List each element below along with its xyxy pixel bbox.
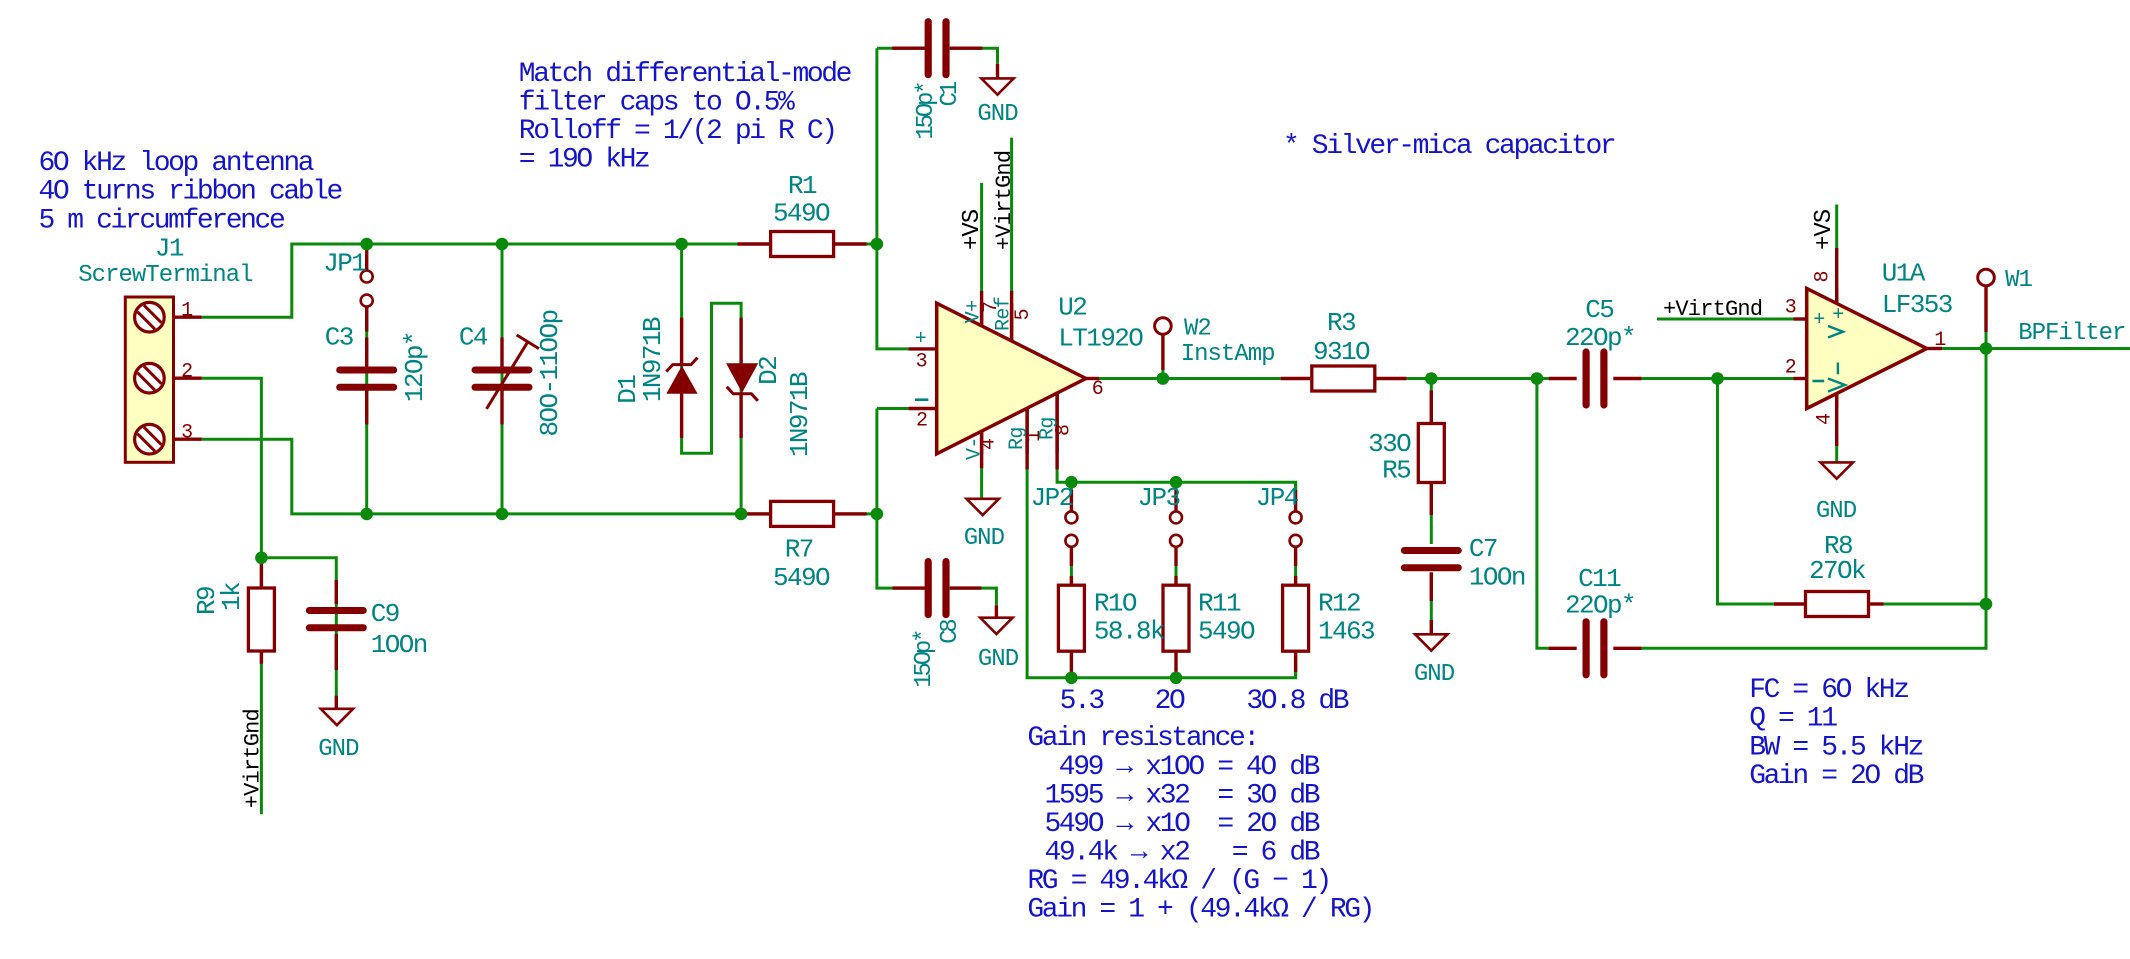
svg-text:R1O: R1O: [1094, 588, 1137, 618]
svg-text:C11: C11: [1578, 564, 1621, 594]
svg-text:1: 1: [181, 300, 193, 323]
svg-text:D2: D2: [754, 357, 784, 385]
svg-text:U1A: U1A: [1882, 259, 1926, 289]
svg-text:3: 3: [1785, 297, 1796, 320]
svg-text:3: 3: [181, 422, 192, 445]
svg-text:C9: C9: [371, 599, 399, 629]
svg-text:1OOn: 1OOn: [371, 630, 427, 660]
svg-text:5.3: 5.3: [1060, 686, 1105, 717]
svg-text:InstAmp: InstAmp: [1181, 341, 1275, 368]
svg-text:58.8k: 58.8k: [1094, 616, 1165, 646]
svg-text:LF353: LF353: [1882, 290, 1952, 320]
svg-text:JP4: JP4: [1256, 483, 1299, 513]
svg-text:27Ok: 27Ok: [1809, 556, 1866, 586]
svg-text:BW = 5.5 kHz: BW = 5.5 kHz: [1749, 732, 1922, 763]
svg-text:R11: R11: [1198, 588, 1241, 618]
svg-text:4O turns ribbon cable: 4O turns ribbon cable: [39, 177, 342, 208]
svg-text:R3: R3: [1327, 308, 1355, 338]
svg-text:6O kHz loop antenna: 6O kHz loop antenna: [39, 148, 314, 179]
svg-text:W2: W2: [1184, 315, 1211, 342]
svg-text:R7: R7: [785, 534, 813, 564]
svg-text:6: 6: [1092, 378, 1103, 401]
svg-text:C3: C3: [325, 323, 353, 353]
svg-text:Q = 11: Q = 11: [1749, 704, 1837, 735]
svg-text:2: 2: [181, 361, 192, 384]
svg-text:2O: 2O: [1155, 686, 1185, 717]
svg-text:549O: 549O: [773, 563, 830, 593]
svg-text:49.4k → x2 = 6 dB: 49.4k → x2 = 6 dB: [1045, 838, 1320, 869]
svg-text:15Op*: 15Op*: [913, 83, 940, 140]
svg-text:W1: W1: [2005, 267, 2032, 294]
svg-text:15Op*: 15Op*: [911, 631, 938, 688]
svg-text:* Silver-mica capacitor: * Silver-mica capacitor: [1283, 131, 1615, 162]
svg-text:J1: J1: [155, 233, 184, 263]
svg-text:GND: GND: [978, 646, 1019, 673]
svg-text:R1: R1: [788, 171, 817, 201]
svg-text:C4: C4: [459, 323, 488, 353]
svg-text:3O.8 dB: 3O.8 dB: [1246, 686, 1348, 717]
svg-text:+VS: +VS: [1811, 209, 1838, 250]
svg-text:GND: GND: [964, 525, 1005, 552]
svg-text:V-: V-: [964, 437, 987, 460]
svg-text:549O: 549O: [1198, 616, 1255, 646]
svg-text:GND: GND: [1816, 498, 1857, 525]
svg-text:8: 8: [1812, 271, 1835, 282]
svg-text:Rg: Rg: [1006, 427, 1029, 450]
svg-text:R5: R5: [1382, 456, 1410, 486]
svg-text:3: 3: [916, 351, 927, 374]
svg-text:Ref: Ref: [993, 297, 1016, 331]
svg-text:FC = 6O kHz: FC = 6O kHz: [1749, 675, 1908, 706]
svg-text:+VS: +VS: [959, 209, 986, 250]
svg-text:+VirtGnd: +VirtGnd: [992, 151, 1017, 250]
svg-text:BPFilter: BPFilter: [2018, 320, 2125, 347]
svg-text:Gain = 2O dB: Gain = 2O dB: [1749, 761, 1923, 792]
svg-text:1595 → x32 = 3O dB: 1595 → x32 = 3O dB: [1045, 781, 1320, 812]
svg-text:1N971B: 1N971B: [638, 317, 668, 402]
svg-text:+: +: [1832, 304, 1843, 327]
svg-text:Gain = 1 + (49.4kΩ / RG): Gain = 1 + (49.4kΩ / RG): [1027, 895, 1373, 926]
svg-text:Rg: Rg: [1037, 417, 1060, 440]
svg-text:33O: 33O: [1368, 429, 1411, 459]
svg-text:C1: C1: [937, 81, 964, 106]
svg-text:549O: 549O: [773, 198, 830, 228]
svg-text:GND: GND: [318, 736, 359, 763]
svg-text:22Op*: 22Op*: [1565, 323, 1635, 353]
svg-text:549O → x1O = 2O dB: 549O → x1O = 2O dB: [1045, 809, 1320, 840]
svg-text:+VirtGnd: +VirtGnd: [1663, 297, 1762, 322]
svg-text:RG = 49.4kΩ / (G − 1): RG = 49.4kΩ / (G − 1): [1027, 866, 1329, 897]
svg-text:8OO-11OOp: 8OO-11OOp: [535, 310, 565, 436]
svg-text:2: 2: [1785, 357, 1796, 380]
svg-text:Gain resistance:: Gain resistance:: [1027, 723, 1257, 754]
svg-text:1: 1: [1934, 329, 1946, 352]
svg-text:12Op*: 12Op*: [400, 332, 430, 402]
svg-text:1OOn: 1OOn: [1469, 563, 1525, 593]
svg-text:Rolloff = 1/(2 pi R C): Rolloff = 1/(2 pi R C): [519, 116, 836, 147]
svg-text:5 m circumference: 5 m circumference: [39, 205, 284, 236]
svg-text:filter caps to O.5%: filter caps to O.5%: [519, 88, 795, 119]
svg-text:+: +: [915, 328, 926, 351]
svg-text:V+: V+: [963, 300, 986, 323]
svg-text:4: 4: [1814, 414, 1837, 425]
svg-text:931O: 931O: [1313, 337, 1370, 367]
svg-text:C7: C7: [1469, 534, 1497, 564]
svg-text:+VirtGnd: +VirtGnd: [241, 709, 266, 808]
svg-text:C5: C5: [1585, 295, 1613, 325]
svg-text:499 → x1OO = 4O dB: 499 → x1OO = 4O dB: [1059, 752, 1320, 783]
svg-text:R12: R12: [1318, 588, 1360, 618]
svg-text:JP1: JP1: [323, 249, 366, 279]
svg-text:22Op*: 22Op*: [1565, 591, 1635, 621]
svg-text:C8: C8: [937, 620, 964, 644]
svg-text:1N971B: 1N971B: [785, 372, 815, 457]
svg-text:JP3: JP3: [1138, 483, 1180, 513]
svg-text:LT192O: LT192O: [1058, 324, 1143, 354]
svg-text:= 19O kHz: = 19O kHz: [519, 145, 649, 176]
svg-text:JP2: JP2: [1031, 483, 1073, 513]
svg-text:ScrewTerminal: ScrewTerminal: [78, 262, 253, 289]
svg-text:GND: GND: [1414, 661, 1455, 688]
svg-text:2: 2: [916, 410, 927, 433]
svg-text:U2: U2: [1058, 293, 1086, 323]
svg-text:1k: 1k: [217, 582, 247, 611]
svg-text:1463: 1463: [1318, 616, 1374, 646]
svg-text:Match differential-mode: Match differential-mode: [519, 59, 851, 90]
svg-text:+: +: [1813, 309, 1824, 332]
svg-text:GND: GND: [977, 101, 1018, 128]
